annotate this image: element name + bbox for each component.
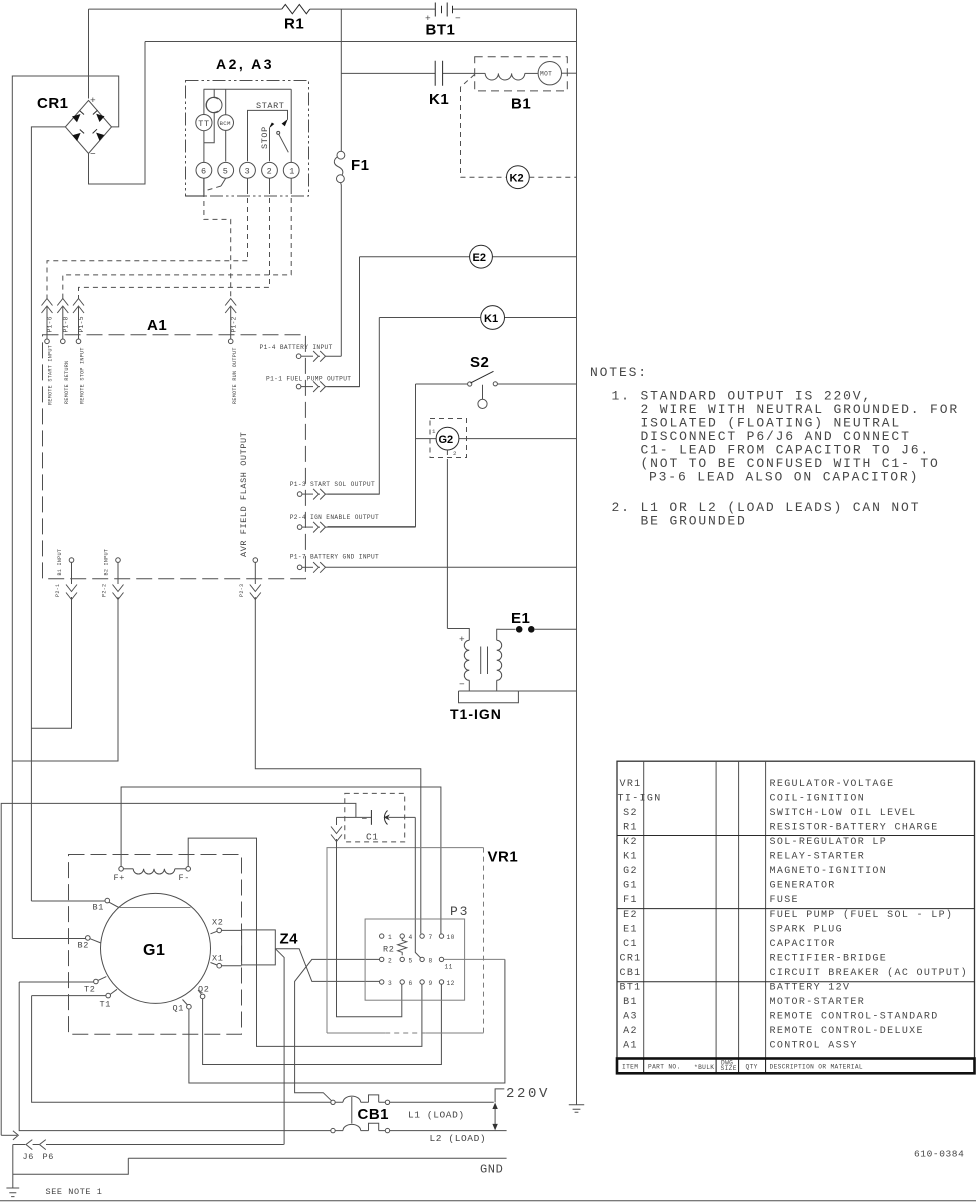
svg-text:T1-IGN: T1-IGN [450,706,502,722]
svg-text:*BULK: *BULK [694,1064,714,1071]
svg-text:Q1: Q1 [173,1004,184,1014]
wire L1 load lead [390,1101,494,1103]
svg-text:220V: 220V [506,1086,550,1102]
pin P1-3 start sol output [290,481,380,500]
svg-text:T2: T2 [84,985,95,995]
svg-text:REMOTE RETURN: REMOTE RETURN [64,361,70,404]
connector P3 [365,904,469,1000]
svg-text:X2: X2 [212,918,223,928]
magneto-ignition G2 [416,419,577,629]
svg-text:F1: F1 [351,157,370,174]
svg-text:AVR FIELD FLASH OUTPUT: AVR FIELD FLASH OUTPUT [239,432,249,557]
wire Z4 to J6 rail [275,949,284,1145]
svg-text:T1: T1 [100,1000,111,1010]
svg-text:P1-7 BATTERY GND INPUT: P1-7 BATTERY GND INPUT [290,554,379,561]
svg-text:DESCRIPTION OR MATERIAL: DESCRIPTION OR MATERIAL [770,1064,863,1071]
pin P2-1 b1 input [31,549,77,728]
wire K1 contact feed (y=73.4) [341,72,474,74]
svg-text:A3: A3 [623,1012,638,1023]
svg-text:R1: R1 [623,822,638,833]
svg-text:P6: P6 [43,1152,54,1162]
terminal 6 [196,162,212,178]
svg-text:7: 7 [429,934,433,941]
svg-text:2: 2 [453,450,457,457]
connector chevrons P1-2 (remote run) [225,299,237,344]
connector arrow into J6 [1,1134,17,1136]
coil-ignition T1-IGN [447,629,576,723]
svg-text:F1: F1 [623,895,638,906]
svg-text:QTY: QTY [746,1064,758,1071]
svg-text:A1: A1 [623,1041,638,1052]
svg-text:SWITCH-LOW OIL LEVEL: SWITCH-LOW OIL LEVEL [770,808,917,819]
svg-text:CR1: CR1 [37,95,69,112]
svg-text:−: − [459,679,465,690]
svg-text:P2-3: P2-3 [239,584,245,597]
impedance Z4 [242,930,299,965]
svg-text:BCM: BCM [220,120,231,127]
wire Z4 to P3-3 (crossing) [275,949,379,982]
svg-text:P2-1: P2-1 [55,584,61,597]
svg-text:E2: E2 [473,252,486,264]
generator G1 (dashed enclosure) [69,855,242,1035]
svg-text:C1: C1 [623,939,638,950]
svg-text:E2: E2 [623,910,638,921]
svg-text:K2: K2 [623,837,638,848]
wire right bus (x=576.5) [576,9,578,1104]
regulator-voltage VR1 box [327,848,518,1033]
lamp (unlabeled circle) [206,89,222,113]
svg-text:COIL-IGNITION: COIL-IGNITION [770,793,866,804]
switch-low-oil-level S2 [328,354,577,527]
svg-text:−: − [90,149,96,160]
sol-regulator K2 (dashed wire + circle) [461,75,577,189]
svg-text:BE GROUNDED: BE GROUNDED [641,514,747,529]
module BCM [218,89,234,130]
svg-text:Q2: Q2 [198,985,209,995]
svg-text:CIRCUIT BREAKER (AC OUTPUT): CIRCUIT BREAKER (AC OUTPUT) [770,967,968,979]
ground (bottom left) [6,1145,19,1197]
svg-text:3: 3 [388,980,392,987]
resistor R2 [383,938,407,955]
remote control A2,A3 (phantom box) [186,56,309,196]
svg-text:1: 1 [388,934,392,941]
svg-text:P1-4 BATTERY INPUT: P1-4 BATTERY INPUT [260,344,333,351]
svg-text:5: 5 [223,167,229,177]
svg-text:BATTERY 12V: BATTERY 12V [770,983,851,994]
pin P2-2 b2 input [12,549,123,761]
P3 pin 8 [420,957,433,964]
wire L2 load lead [390,1130,507,1132]
svg-text:G2: G2 [623,866,638,877]
terminal 1 [283,162,299,178]
pin P2-3 avr field flash output [239,432,421,934]
svg-text:6: 6 [409,980,413,987]
P3 pin 7 [420,934,433,941]
wire C1- to J6 (note 1 lead) [1,803,356,1135]
svg-text:2: 2 [267,167,273,177]
svg-text:K2: K2 [510,173,524,185]
svg-text:5: 5 [409,957,413,964]
svg-text:A2, A3: A2, A3 [216,56,274,72]
svg-text:TI-IGN: TI-IGN [618,793,662,804]
svg-text:TT: TT [198,119,209,129]
svg-text:−: − [362,814,368,825]
fuel pump E2 [328,245,577,386]
pin P1-4 battery input [260,344,342,362]
svg-text:L2 (LOAD): L2 (LOAD) [430,1133,487,1144]
svg-text:BT1: BT1 [619,983,641,994]
terminal Q2 [198,985,209,999]
svg-text:E1: E1 [623,924,638,935]
P3 pin 2 [380,957,393,964]
svg-text:GENERATOR: GENERATOR [770,881,836,892]
spark plug E1 [500,610,577,633]
svg-text:MOTOR-STARTER: MOTOR-STARTER [770,997,866,1008]
terminal X1 [211,954,242,969]
svg-text:6: 6 [201,167,207,177]
P3 pin 9 [420,980,433,987]
svg-text:REMOTE STOP INPUT: REMOTE STOP INPUT [80,347,86,404]
svg-text:PART NO.: PART NO. [648,1064,681,1071]
svg-text:VR1: VR1 [488,849,519,866]
P3 pin 3 [380,980,393,987]
svg-text:MAGNETO-IGNITION: MAGNETO-IGNITION [770,866,888,877]
wire terminal6 lead [186,178,204,196]
svg-text:S2: S2 [470,354,489,371]
pin P1-7 battery gnd input [290,554,577,573]
svg-text:REMOTE START INPUT: REMOTE START INPUT [48,345,54,405]
svg-text:1: 1 [432,428,436,435]
pin P1-1 fuel pump output [266,376,360,393]
connector J6 P6 [13,1140,284,1162]
svg-text:CB1: CB1 [619,968,641,979]
wire terminal3 to P1-6 (dashed) [247,178,249,189]
wire terminal2 to P1-5 (dashed) [269,178,271,189]
wire F+ to P3-10 [121,787,441,934]
svg-text:L1 (LOAD): L1 (LOAD) [408,1110,465,1121]
wire CR1 top lead [88,9,90,98]
svg-text:RELAY-STARTER: RELAY-STARTER [770,852,866,863]
svg-text:A2: A2 [623,1026,638,1037]
wire P3-2 to CB1 (crossing) [295,959,380,1101]
svg-text:ITEM: ITEM [622,1064,638,1071]
svg-text:STOP: STOP [260,126,270,149]
control assy A1 (dashed box) [43,317,306,579]
terminal Q1 [173,1000,192,1014]
wire gnd step to ground [13,1158,129,1174]
svg-text:G1: G1 [143,942,165,959]
wire C1+ to P3-8 [415,817,421,958]
220v dimension callout [492,1086,550,1130]
svg-text:B1: B1 [93,903,104,913]
svg-text:GND: GND [480,1163,503,1177]
connector chevrons P1-6 [42,299,54,344]
P3 pin 1 [380,934,393,941]
svg-text:P1-3 START SOL OUTPUT: P1-3 START SOL OUTPUT [290,481,375,488]
start/stop switch [248,89,292,162]
pin P2-4 ign enable output [290,514,416,533]
svg-text:610-0384: 610-0384 [914,1149,964,1160]
circuit breaker CB1 [19,982,389,1133]
relay-starter K1 coil [328,306,577,495]
fuse F1 [334,9,369,356]
terminal T2 [19,977,106,995]
svg-text:RECTIFIER-BRIDGE: RECTIFIER-BRIDGE [770,953,888,964]
wire lamp to terminal-6 lead [204,113,214,143]
battery BT1 [425,3,461,39]
terminal 5 [218,162,234,178]
svg-text:REMOTE RUN OUTPUT: REMOTE RUN OUTPUT [232,347,238,404]
svg-text:CB1: CB1 [358,1106,390,1123]
P3 pin 12 [439,980,454,987]
resistor R1 [282,4,310,13]
P3 pin 10 [439,934,454,941]
capacitor C1 (dashed box) [337,793,416,842]
svg-text:F+: F+ [114,873,125,883]
svg-text:P3-6 LEAD ALSO ON CAPACITOR): P3-6 LEAD ALSO ON CAPACITOR) [649,470,919,485]
terminal X2 [211,918,242,934]
svg-text:S2: S2 [623,808,638,819]
frame bottom border [0,1200,976,1202]
notes text block [590,365,959,529]
svg-text:P1-1 FUEL PUMP OUTPUT: P1-1 FUEL PUMP OUTPUT [266,376,351,383]
connector chevrons P1-8 [57,299,69,344]
svg-text:BT1: BT1 [426,22,456,39]
svg-text:A1: A1 [147,317,167,334]
generator G1 body [101,893,211,1003]
svg-text:K1: K1 [429,91,449,108]
svg-text:SIZE: SIZE [721,1065,737,1072]
svg-text:CONTROL ASSY: CONTROL ASSY [770,1041,858,1052]
svg-text:P3: P3 [450,904,469,919]
svg-text:4: 4 [409,934,413,941]
svg-text:P2-2: P2-2 [102,584,108,597]
P3 pin 11 [439,957,452,970]
svg-text:2: 2 [388,957,392,964]
wire CR1 right vertex loop to B2-terminal column [12,76,118,939]
terminal 3 [240,162,256,178]
ground (right bus) [569,1105,584,1112]
terminal T1 [32,989,117,1009]
wire Q2 to P3-12 [203,984,442,1064]
svg-text:P1-5: P1-5 [78,316,85,332]
hourmeter TT [196,89,212,131]
svg-text:F-: F- [179,873,190,883]
wire terminal5 jog to P1-2 (dashed) [221,178,226,186]
svg-text:REMOTE CONTROL-DELUXE: REMOTE CONTROL-DELUXE [770,1026,924,1037]
svg-text:REMOTE CONTROL-STANDARD: REMOTE CONTROL-STANDARD [770,1012,939,1023]
svg-text:−: − [455,13,461,24]
wire rail2 (CR1 dc rail, y=41.5) [145,41,577,43]
wire F- to P3-9 [188,838,422,1046]
svg-text:FUEL PUMP (FUEL SOL - LP): FUEL PUMP (FUEL SOL - LP) [770,909,954,921]
svg-text:P1-8: P1-8 [62,316,69,332]
svg-text:G2: G2 [439,434,454,446]
wire C1 to P3-6 with chevrons [331,817,402,1016]
motor-starter B1 (dashed enclosure) [475,57,577,113]
terminal B2 [12,936,100,951]
parts list table [617,761,975,1073]
svg-text:K1: K1 [484,313,498,325]
wire CR1 bottom lead to rail2 [89,42,146,185]
field winding F+ F- [114,867,191,884]
svg-text:SPARK PLUG: SPARK PLUG [770,924,844,935]
svg-text:3: 3 [245,167,251,177]
svg-text:P1-2: P1-2 [230,316,237,332]
wire rail1 (battery + rail, y=9) [89,8,577,10]
svg-text:B1 INPUT: B1 INPUT [57,549,63,576]
svg-text:+: + [90,95,96,106]
svg-text:C1: C1 [366,832,379,843]
svg-text:10: 10 [447,934,455,941]
P3 pin 5 [400,957,413,964]
svg-text:SOL-REGULATOR LP: SOL-REGULATOR LP [770,837,888,848]
connector chevrons P1-5 [73,299,85,344]
svg-text:8: 8 [429,957,433,964]
wire TT to terminal 6 [203,131,205,163]
wire Q1 to P3-11 [189,959,505,1083]
wire terminal1 to P1-8 (dashed) [290,178,292,189]
svg-text:R2: R2 [383,945,394,955]
svg-text:REGULATOR-VOLTAGE: REGULATOR-VOLTAGE [770,779,895,790]
svg-text:G1: G1 [623,881,638,892]
terminal B1 [31,898,118,912]
svg-text:11: 11 [445,964,453,971]
svg-text:CAPACITOR: CAPACITOR [770,939,836,950]
wire P3-11 run [444,958,505,960]
svg-text:1: 1 [289,167,295,177]
svg-text:NOTES:: NOTES: [590,365,648,380]
svg-text:CR1: CR1 [619,953,641,964]
svg-text:FUSE: FUSE [770,895,799,906]
P3 pin 6 [400,980,413,987]
svg-text:Z4: Z4 [280,931,299,948]
svg-text:B1: B1 [511,96,531,113]
svg-text:E1: E1 [511,610,530,627]
A2 internal top bus [204,88,292,90]
svg-text:RESISTOR-BATTERY CHARGE: RESISTOR-BATTERY CHARGE [770,822,939,833]
svg-text:P2-4 IGN ENABLE OUTPUT: P2-4 IGN ENABLE OUTPUT [290,514,379,521]
svg-text:9: 9 [429,980,433,987]
terminal 2 [262,162,278,178]
svg-text:12: 12 [447,980,455,987]
wire CR1 left vertex to B1-terminal column [31,127,65,901]
svg-text:P1-6: P1-6 [47,316,54,332]
relay contacts K1 [429,61,449,108]
svg-text:VR1: VR1 [619,779,641,790]
svg-text:K1: K1 [623,852,638,863]
svg-text:SEE NOTE 1: SEE NOTE 1 [46,1187,103,1197]
svg-text:B2 INPUT: B2 INPUT [104,549,110,576]
svg-text:X1: X1 [212,954,223,964]
rectifier-bridge CR1 [37,95,112,160]
svg-text:B2: B2 [78,941,89,951]
svg-text:B1: B1 [623,997,638,1008]
svg-text:MOT: MOT [540,71,552,78]
svg-text:START: START [256,101,285,111]
svg-text:J6: J6 [23,1152,34,1162]
svg-text:R1: R1 [284,16,304,33]
wire gnd rail [128,1157,506,1159]
P3 pin 4 [400,934,413,941]
wire BCM to terminal 5 [225,130,227,161]
